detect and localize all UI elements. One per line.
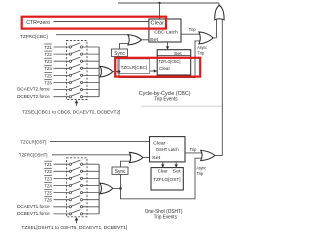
wire OSHT latch output to trip OR (185, 152, 201, 154)
wire OR output (113, 71, 120, 73)
trip input rows CBC (54, 43, 100, 97)
wire/arrow TZCLR to flag Clear (150, 70, 156, 72)
svg-text:Async: Async (197, 165, 207, 170)
svg-text:TZSEL[OSHT1 to OSHT6, DCAEVT1,: TZSEL[OSHT1 to OSHT6, DCAEVT1, DCBEVT1] (21, 225, 127, 230)
svg-text:Trip: Trip (190, 147, 197, 152)
svg-text:TZFRC[CBC]: TZFRC[CBC] (20, 34, 48, 40)
trip input rows OSHT (54, 160, 100, 214)
svg-text:OSHT Latch: OSHT Latch (156, 147, 179, 153)
svg-text:Clear: Clear (153, 140, 165, 146)
or-gate U4 trip combine (points up) (215, 5, 224, 20)
or-gate U2 CBC trip (199, 32, 213, 44)
svg-text:TZ6: TZ6 (44, 198, 52, 204)
annotation red box TZCLR/TZFLG (115, 58, 200, 77)
svg-text:Set: Set (152, 155, 161, 161)
wire CBC latch output to trip OR (181, 33, 200, 35)
svg-text:DCBEVT1.force: DCBEVT1.force (17, 211, 50, 216)
wire top trip rail (118, 2, 219, 4)
wire CBC async input (119, 41, 200, 78)
wire CTR=zero to Clear (54, 21, 149, 23)
svg-text:Trip: Trip (189, 27, 196, 32)
svg-text:TZFRC[OSHT]: TZFRC[OSHT] (19, 153, 48, 159)
wire set OR output to latch Set (OSHT) (143, 157, 149, 159)
arrow TZSEL select (76, 103, 78, 106)
latch U1 CBC Latch (149, 19, 181, 42)
labels TZ1-TZ6, DCAEVT2.force, DCBEVT2.force (17, 45, 52, 99)
svg-text:Set: Set (173, 168, 182, 173)
svg-text:Trip: Trip (197, 51, 204, 56)
sync box CBC (112, 49, 128, 56)
wire OSHT trip OR output (215, 155, 223, 157)
wire up-OR output (218, 3, 220, 5)
flag box TZFLG[CBC] (157, 50, 191, 75)
svg-text:CBC Latch: CBC Latch (154, 30, 178, 36)
svg-text:Set: Set (150, 37, 159, 43)
arrow TZSEL select (OSHT) (76, 220, 78, 223)
svg-text:DCAEVT2.force: DCAEVT2.force (17, 87, 50, 92)
svg-text:TZ3: TZ3 (44, 176, 52, 182)
wire set OR output to latch Set (142, 39, 149, 41)
svg-text:TZ1: TZ1 (44, 162, 52, 168)
labels TZ1-TZ6, DCAEVT1.force, DCBEVT1.force (17, 162, 52, 216)
or-gate U5 CBC 8-input (98, 47, 100, 97)
svg-text:TZFLG[OST]: TZFLG[OST] (153, 177, 181, 182)
svg-text:Clear: Clear (159, 66, 170, 71)
wire CBC trip OR output (213, 37, 216, 39)
svg-text:TZ4: TZ4 (44, 183, 52, 189)
svg-text:Trip: Trip (197, 171, 204, 176)
or-gate U8 OSHT set (129, 152, 143, 162)
svg-text:Clear: Clear (158, 168, 168, 173)
wire sync out to set OR (120, 44, 129, 49)
register box TZCLR[CBC] (118, 59, 150, 74)
svg-text:TZ2: TZ2 (44, 52, 52, 58)
arrows latch to flag (OSHT) (162, 162, 164, 166)
sync box OSHT (112, 167, 128, 174)
svg-text:TZ2: TZ2 (44, 169, 52, 175)
svg-text:DCAEVT1.force: DCAEVT1.force (17, 204, 50, 209)
or-gate U7 OSHT trip (201, 150, 215, 160)
wire TZCLR[OST] to latch Clear (50, 141, 150, 143)
wire TZFRC[OSHT] to set OR (52, 155, 130, 157)
svg-text:Async: Async (197, 45, 207, 50)
latch U6 OSHT Latch (150, 137, 186, 162)
svg-text:DCBEVT2.force: DCBEVT2.force (17, 94, 50, 99)
svg-text:TZSEL[CBC1 to CBC6, DCAEVT2, D: TZSEL[CBC1 to CBC6, DCAEVT2, DCBEVT2] (22, 110, 120, 115)
annotation red box CTR=zero/Clear (22, 17, 166, 29)
svg-text:TZ4: TZ4 (44, 66, 52, 72)
node OSHT OR junction (119, 187, 122, 190)
switch bank box OSHT (dashed) (67, 158, 88, 217)
wire OSHT async input (121, 158, 202, 199)
svg-text:Trip Events: Trip Events (154, 97, 178, 103)
svg-text:TZFLG[CBC]: TZFLG[CBC] (159, 59, 181, 64)
wire sync input from junction (118, 56, 120, 71)
svg-text:TZ6: TZ6 (44, 80, 52, 86)
wire up-OR right input rail down to OSHT trip (221, 19, 223, 156)
wire faint group-box bottom (CBC) (141, 105, 222, 107)
svg-text:CTR=zero: CTR=zero (26, 20, 50, 26)
svg-text:TZ1: TZ1 (44, 45, 52, 51)
svg-text:Trip Events: Trip Events (154, 214, 178, 220)
or-gate U3 CBC set (128, 35, 142, 45)
node CBC OR junction (118, 70, 121, 73)
svg-text:Set: Set (174, 51, 182, 56)
svg-text:TZ5: TZ5 (44, 73, 52, 79)
wire TZFRC[CBC] to set OR (56, 35, 128, 37)
wire up-OR left input stub (216, 19, 218, 38)
svg-text:Clear: Clear (151, 21, 165, 27)
svg-text:TZCLR[OST]: TZCLR[OST] (20, 140, 47, 146)
svg-text:TZ5: TZ5 (44, 191, 52, 197)
arrow latch to flag Set (167, 42, 169, 48)
wire OR output (OSHT) (113, 187, 122, 189)
flag box TZFLG[OST] (151, 168, 183, 190)
svg-text:TZCLR[CBC]: TZCLR[CBC] (121, 65, 148, 70)
wire sync out to set OR (OSHT) (121, 161, 131, 167)
switch bank box CBC (dashed) (67, 41, 88, 100)
svg-text:TZ3: TZ3 (44, 59, 52, 65)
wire sync input from junction (OSHT) (120, 174, 122, 188)
node top-rail junction (158, 2, 160, 4)
wire junction to CBC latch top (159, 3, 161, 19)
svg-text:Sync: Sync (114, 51, 125, 57)
svg-text:Sync: Sync (115, 169, 126, 175)
or-gate U9 OSHT 8-input (98, 164, 100, 214)
